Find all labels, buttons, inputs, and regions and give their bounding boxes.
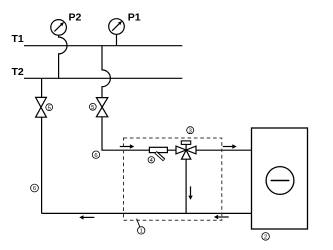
wire below valve 5b turning right into supply pipe xyxy=(102,117,252,150)
label 5 (right valve) xyxy=(89,103,96,111)
valve 5b (right shut-off valve) xyxy=(96,98,107,117)
label 4 xyxy=(148,157,154,164)
flow arrow left (bottom pipe, right) xyxy=(214,215,229,219)
wire below valve 5a xyxy=(41,117,43,213)
gauge P1 xyxy=(109,11,141,34)
svg-text:5: 5 xyxy=(48,105,51,111)
svg-text:6: 6 xyxy=(94,153,97,159)
flow arrow right (inside box left) xyxy=(120,144,135,148)
unit 2 box (heat consumer) xyxy=(252,128,308,229)
label 3 xyxy=(187,127,194,135)
label 1 xyxy=(138,227,145,235)
svg-text:T2: T2 xyxy=(12,66,24,78)
label 2 xyxy=(262,233,270,241)
svg-text:1: 1 xyxy=(140,229,143,235)
pipe bottom return xyxy=(42,212,252,214)
pipe T2 xyxy=(24,77,182,79)
wire P2 stem with hop over T1 xyxy=(59,35,67,78)
wire P1 stem xyxy=(116,34,118,45)
three-way valve 3 xyxy=(176,141,196,159)
flow arrow right (outlet of box) xyxy=(223,144,237,148)
wire bypass down from valve 3 xyxy=(185,159,187,213)
unit 2 pump bar xyxy=(271,180,290,182)
unit 2 pump circle xyxy=(266,167,294,195)
svg-text:P2: P2 xyxy=(69,11,82,23)
label 6 (supply corner) xyxy=(92,151,99,159)
svg-text:3: 3 xyxy=(189,128,192,134)
flow arrow left (bottom pipe, left) xyxy=(79,215,94,219)
svg-text:P1: P1 xyxy=(128,11,141,23)
wire from T1 down with hop over T2 xyxy=(102,46,110,98)
svg-text:6: 6 xyxy=(33,186,36,192)
valve 5a (left shut-off valve) xyxy=(36,97,47,117)
svg-text:2: 2 xyxy=(264,235,267,241)
svg-text:T1: T1 xyxy=(12,33,24,45)
enclosure dashed box (control unit 1) xyxy=(124,138,222,220)
gauge P2 xyxy=(51,11,82,35)
label 6 (left riser) xyxy=(31,184,39,192)
wire from T2 down to valve 5a xyxy=(41,78,43,97)
label 5 (left valve) xyxy=(46,104,53,112)
flow arrow down (bypass) xyxy=(188,186,192,200)
leader line for label 1 xyxy=(137,219,140,227)
svg-text:5: 5 xyxy=(91,105,94,111)
pipe T1 xyxy=(24,45,182,47)
filter 4 xyxy=(149,147,167,160)
